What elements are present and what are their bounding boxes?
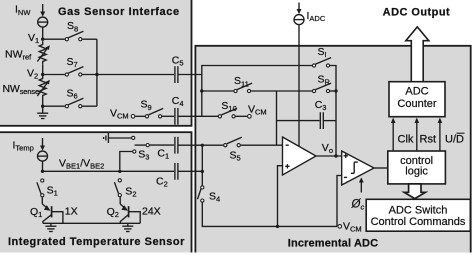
switch S4 (198, 186, 204, 202)
wire S4 to VCM rail (202, 203, 337, 227)
wire C2 into ADC box (178, 170, 202, 172)
svg-text:Control Commands: Control Commands (371, 216, 466, 228)
svg-text:U/D: U/D (445, 133, 464, 145)
capacitor C4 (175, 108, 178, 125)
capacitor C1 (175, 137, 178, 154)
wire C5 into ADC box (178, 74, 202, 76)
wire V2 to S7 (43, 74, 65, 76)
wire summing node vertical (SR to minus input) (276, 91, 278, 145)
switch S7 (65, 67, 83, 77)
comparator U2 (342, 151, 374, 185)
svg-text:ADC Switch: ADC Switch (389, 204, 448, 216)
op-amp minus sign (286, 144, 289, 146)
wire C3 right to bus (323, 120, 336, 122)
wire gas bus vertical (96, 39, 98, 106)
transistor Q1 (42, 197, 63, 223)
wire S6 to bus (82, 105, 97, 107)
panel: Gas Sensor Interface box (0, 0, 192, 126)
switch S6 (65, 98, 83, 107)
node C2 junction (201, 170, 204, 173)
wire Clk (391, 118, 396, 152)
wire S7 to C5 (82, 74, 174, 76)
wire node to S6 (43, 105, 65, 107)
wire S_R to right bus (330, 90, 336, 92)
svg-text:1X: 1X (65, 206, 78, 218)
wire U/D (438, 118, 443, 152)
panel: Incremental ADC box (195, 46, 470, 255)
svg-text:Rst: Rst (420, 133, 437, 145)
block arrow ADC Output (406, 27, 429, 82)
capacitor C5 (175, 66, 178, 83)
node S5 bus top (201, 144, 204, 147)
svg-text:Gas Sensor Interface: Gas Sensor Interface (58, 6, 180, 18)
terminal V_CM S10 (248, 115, 252, 119)
resistor NW_ref (37, 41, 50, 65)
box control logic (388, 151, 446, 184)
node VBE (41, 170, 44, 173)
node V1 (41, 38, 44, 41)
wire V_o (316, 155, 342, 157)
switch S10 (218, 108, 237, 118)
terminal V_CM gas (131, 115, 135, 119)
capacitor C2 (175, 163, 178, 180)
svg-text:ADC Output: ADC Output (383, 6, 450, 18)
wire VBE row to C2 (43, 170, 175, 172)
switch S5 (224, 137, 242, 146)
node V2 (41, 73, 44, 76)
current source I_ADC (294, 3, 304, 25)
switch S8 (65, 31, 83, 41)
switch S9 (145, 108, 163, 118)
block arrow control to switch commands (404, 184, 425, 199)
ground Q2 (122, 223, 133, 231)
box ADC Counter (389, 82, 445, 117)
svg-text:logic: logic (405, 166, 428, 178)
current source I_NW (38, 4, 48, 27)
wire NW_ref to V2 (42, 65, 44, 75)
wire S8 to bus (82, 38, 97, 40)
wire plus input vertical (278, 166, 283, 227)
wire I_Temp to VBE node (42, 161, 44, 171)
op-amp U1 (283, 137, 317, 175)
comparator step symbol (351, 162, 358, 173)
wire VCM to S9 (135, 115, 145, 117)
switch S2 (114, 179, 121, 197)
box ADC Switch Control Commands (366, 199, 470, 231)
terminal V_CM rail (338, 225, 342, 229)
wire Rst (415, 118, 420, 152)
node S7 bus junction (95, 73, 98, 76)
wire S11 to S_R (251, 90, 312, 92)
resistor NW_sense (37, 75, 50, 100)
svg-text:Integrated Temperature Sensor: Integrated Temperature Sensor (8, 236, 185, 248)
node S11 on left bus (200, 89, 203, 92)
node plus input on rail (276, 225, 279, 228)
wire S10 to VCM terminal (236, 115, 248, 117)
svg-text:24X: 24X (142, 206, 161, 218)
svg-text:ADC: ADC (405, 86, 428, 98)
wire V1 to S8 (43, 38, 65, 40)
node S2/S3 tap (118, 170, 121, 173)
wire C2 junction vertical (201, 145, 203, 185)
transistor Q2 (120, 197, 140, 223)
wire ground to S3 top contact (108, 137, 131, 139)
wire NW_sense to bottom node (42, 99, 44, 106)
wire S5 to op-amp minus (241, 144, 283, 146)
temp box: current source I_Temp (38, 138, 48, 161)
wire S3 pole to C1 (150, 144, 174, 146)
ground sideways S3 (104, 133, 109, 143)
switch S_I (312, 58, 331, 68)
wire comparator out (374, 167, 388, 169)
wire C1 to S5 (178, 144, 224, 146)
wire S3 bottom contact down (120, 152, 133, 170)
wire transistor rail (43, 222, 140, 224)
comparator plus sign (344, 154, 348, 158)
wire S_I to right bus (330, 66, 336, 157)
wire comparator minus vertical (337, 176, 342, 227)
comparator minus sign (344, 176, 347, 178)
svg-text:Counter: Counter (397, 98, 436, 110)
node S_R bus junction (334, 89, 337, 92)
wire S9 to C4 (162, 115, 174, 117)
wire left bus upper (C5 node) (202, 66, 312, 117)
switch S3 (132, 136, 150, 153)
svg-text:Incremental ADC: Incremental ADC (288, 237, 378, 249)
switch S1 (37, 179, 44, 197)
wire S11 row (202, 90, 234, 92)
switch S_R (312, 83, 331, 93)
ground gas box (37, 106, 48, 118)
wire source to V1 (42, 27, 44, 39)
wire C3 left (277, 120, 320, 122)
capacitor C3 (320, 112, 323, 129)
op-amp plus sign (285, 164, 289, 168)
switch S11 (234, 83, 252, 93)
ground Q1 (45, 223, 56, 231)
wire C4 to S10 (178, 115, 218, 117)
node V_o bus (334, 154, 337, 157)
svg-text:Clk: Clk (398, 133, 414, 145)
node bottom (41, 105, 44, 108)
clock arrow phi_c (359, 177, 364, 192)
panel: Integrated Temperature Sensor box (0, 132, 192, 255)
scan crop strips (0, 253, 474, 255)
wire I_ADC vertical (298, 25, 300, 147)
